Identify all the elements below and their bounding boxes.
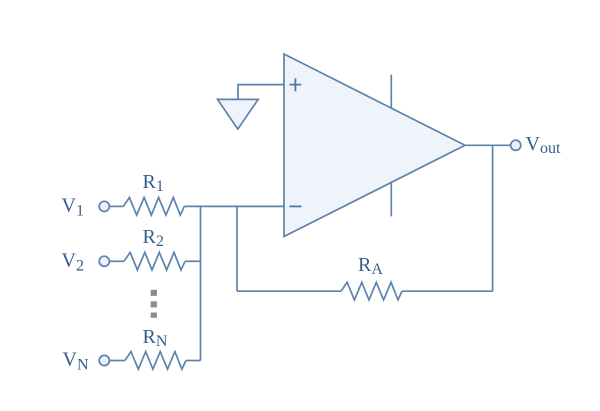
wire feedback left vertical xyxy=(236,206,238,291)
node VN terminal xyxy=(99,355,109,365)
node V2 terminal xyxy=(99,256,109,266)
op-amp U1 negative supply pin xyxy=(390,183,392,216)
svg-text:Vout: Vout xyxy=(526,133,561,157)
wire V1 terminal to R1 xyxy=(109,205,123,207)
wire summing bus vertical xyxy=(200,206,202,360)
wire feedback right vertical xyxy=(492,145,494,291)
wire output xyxy=(465,144,511,146)
resistor R2 xyxy=(124,252,185,270)
resistor RN xyxy=(125,352,186,370)
node Vout terminal xyxy=(511,140,521,150)
wire R1 to inverting input xyxy=(184,205,284,207)
svg-text:V2: V2 xyxy=(62,250,84,275)
wire feedback bottom right xyxy=(402,290,493,292)
op-amp U1 minus input symbol xyxy=(290,205,302,207)
ground xyxy=(218,99,259,129)
resistor R1 xyxy=(123,198,184,216)
svg-text:RA: RA xyxy=(358,254,383,278)
svg-text:VN: VN xyxy=(63,349,89,374)
wire feedback bottom left xyxy=(237,290,341,292)
wire V2 terminal to R2 xyxy=(109,260,124,262)
svg-text:RN: RN xyxy=(143,326,168,350)
wire RN to summing bus xyxy=(186,360,201,362)
resistor RA xyxy=(341,282,402,300)
svg-text:V1: V1 xyxy=(62,195,84,220)
op-amp U1 plus input symbol xyxy=(290,78,302,91)
wire R2 to summing bus xyxy=(185,260,201,262)
wire noninverting input xyxy=(238,85,284,100)
wire VN terminal to RN xyxy=(109,360,125,362)
svg-text:R1: R1 xyxy=(143,171,164,195)
node V1 terminal xyxy=(99,201,109,211)
op-amp U1 body xyxy=(284,54,465,237)
op-amp U1 positive supply pin xyxy=(390,75,392,109)
ellipsis dots xyxy=(151,290,157,318)
svg-text:R2: R2 xyxy=(143,226,164,250)
